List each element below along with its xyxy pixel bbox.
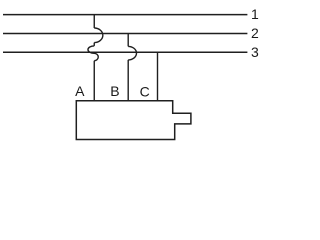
svg-text:1: 1 [251,6,259,22]
svg-text:C: C [140,83,150,99]
wire line 3 (horizontal) [3,51,247,53]
svg-text:3: 3 [251,44,259,60]
wire A vertical (from line 1 to motor terminal A) [93,15,95,101]
wire line 1 (horizontal) [3,14,247,16]
svg-text:B: B [110,83,119,99]
svg-text:2: 2 [251,25,259,41]
wire B hop over line 3 (bulge right) [128,46,136,60]
motor M1 body with shaft tab [76,101,191,140]
wire B vertical (from line 2 to motor terminal B) [127,34,129,101]
svg-text:A: A [75,83,85,99]
wire C vertical (from line 3 to motor terminal C) [157,52,159,100]
wire A hop over line 2 (bulge right) [94,28,103,43]
wire A hop over line 3 (S-bend: left above, right below) [88,46,98,61]
wire line 2 (horizontal) [3,33,247,35]
